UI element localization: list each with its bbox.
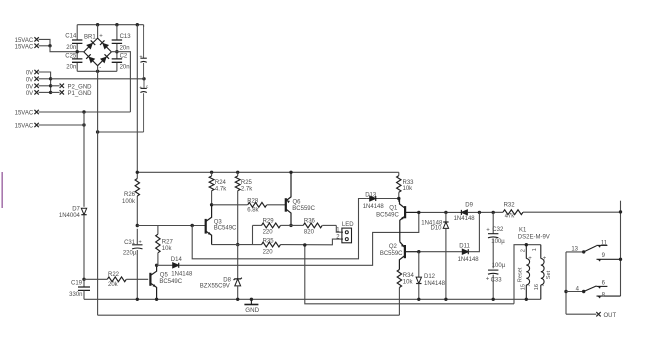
diode D13 1N4148	[367, 198, 399, 200]
wire Q3 emitter row	[212, 244, 253, 246]
svg-text:D10: D10	[430, 226, 442, 232]
svg-text:BZX55C9V: BZX55C9V	[200, 283, 230, 289]
decorative left margin mark (purple)	[1, 172, 3, 208]
capacitor C33 100u (electrolytic)	[488, 269, 498, 271]
wire Q1 base row	[419, 211, 461, 213]
junction C31 bottom rail	[136, 298, 139, 301]
relay contact 8	[598, 296, 601, 299]
capacitor C2	[112, 59, 122, 62]
svg-text:+: +	[139, 239, 142, 245]
capacitor C14	[72, 40, 82, 43]
svg-text:20k: 20k	[108, 282, 119, 288]
junction R35 to rail B	[303, 243, 306, 246]
svg-text:1N4148: 1N4148	[454, 216, 476, 222]
svg-text:D11: D11	[459, 244, 470, 250]
svg-text:D14: D14	[171, 257, 183, 263]
diode D14 1N4148	[158, 264, 173, 266]
svg-text:+: +	[528, 256, 532, 262]
svg-text:BR1: BR1	[84, 35, 96, 41]
svg-text:1N4148: 1N4148	[363, 204, 385, 210]
resistor R29 220	[253, 224, 262, 226]
svg-text:11: 11	[601, 240, 608, 246]
wire rail B (relay drive)	[305, 245, 514, 303]
connector LED	[336, 225, 343, 232]
svg-text:6.8k: 6.8k	[247, 208, 259, 214]
svg-text:20n: 20n	[120, 45, 130, 51]
diode D11 1N4148	[462, 249, 468, 254]
svg-text:R32: R32	[504, 202, 516, 208]
svg-text:BC559C: BC559C	[292, 206, 315, 212]
svg-text:0V: 0V	[26, 77, 33, 83]
svg-text:100k: 100k	[122, 199, 136, 205]
svg-text:C31: C31	[124, 240, 136, 246]
svg-text:R25: R25	[241, 180, 253, 186]
resistor R26 100k	[135, 179, 139, 197]
svg-text:C33: C33	[491, 278, 503, 284]
svg-text:C32: C32	[492, 227, 504, 233]
svg-text:C13: C13	[120, 34, 132, 40]
svg-text:0V: 0V	[26, 91, 33, 97]
resistor R33 10k	[398, 172, 400, 175]
svg-text:1: 1	[532, 248, 538, 251]
resistor R25 2.7k	[237, 172, 239, 176]
wire 0V rail	[51, 78, 144, 80]
svg-text:+: +	[543, 256, 547, 262]
resistor R36 820	[291, 224, 303, 226]
wire C13 column	[116, 25, 118, 40]
svg-text:+: +	[139, 86, 142, 92]
svg-text:15: 15	[521, 284, 527, 290]
wire 15VAC lower 2	[39, 124, 84, 126]
svg-text:Q6: Q6	[293, 200, 302, 206]
svg-text:15VAC: 15VAC	[15, 38, 34, 44]
svg-text:Q3: Q3	[214, 219, 223, 225]
svg-text:C25: C25	[65, 54, 77, 60]
bridge rectifier BR1	[84, 38, 112, 66]
svg-text:C14: C14	[65, 34, 77, 40]
ground GND symbol	[250, 298, 253, 301]
wire rail C (R34 return)	[98, 314, 400, 316]
svg-text:OUT: OUT	[604, 313, 617, 319]
transistor Q3 BC549C	[205, 219, 207, 234]
relay contact pole 4	[565, 252, 567, 314]
svg-text:R34: R34	[403, 273, 415, 279]
svg-text:D7: D7	[72, 207, 80, 213]
svg-text:K1: K1	[519, 227, 527, 233]
wire 15VAC to D7	[83, 112, 85, 207]
resistor R28 6.8k	[212, 204, 248, 206]
svg-text:10k: 10k	[403, 186, 414, 192]
svg-text:47k: 47k	[505, 214, 516, 220]
svg-text:R26: R26	[124, 192, 136, 198]
svg-text:4.7k: 4.7k	[215, 187, 227, 193]
svg-text:220: 220	[263, 249, 274, 255]
zener diode D8 BZX55C9V	[237, 245, 239, 279]
svg-text:P2_GND: P2_GND	[68, 84, 93, 90]
svg-text:R36: R36	[304, 219, 316, 225]
relay contact 9	[598, 259, 601, 262]
wire 15VAC lower 1	[39, 111, 131, 113]
svg-text:LED: LED	[342, 222, 354, 228]
svg-text:D13: D13	[365, 192, 377, 198]
wire 15VAC pair to bridge left	[39, 39, 50, 45]
wire R29 left link	[252, 225, 254, 244]
terminal P2_GND	[51, 85, 60, 87]
svg-text:0V: 0V	[26, 71, 33, 77]
svg-text:220: 220	[263, 229, 274, 235]
relay K1 reset coil	[525, 245, 527, 259]
diode D12 1N4148	[418, 252, 420, 277]
svg-text:Q5: Q5	[160, 273, 169, 279]
resistor R24 4.7k	[211, 172, 213, 176]
svg-text:+: +	[139, 55, 142, 61]
resistor R22 20k	[84, 278, 107, 280]
svg-text:-: -	[528, 283, 530, 289]
svg-text:2.7k: 2.7k	[241, 187, 253, 193]
junction Q5 collector node	[155, 264, 158, 267]
resistor R35 220	[253, 244, 262, 246]
wire 0V bus	[39, 72, 51, 92]
junction Q6 collector to R29 row	[289, 224, 292, 227]
wire D14 to Q1 base (feedback)	[179, 212, 419, 265]
capacitor C32 100u (electrolytic)	[492, 212, 494, 233]
capacitor C19	[83, 279, 85, 287]
diode D7 1N4004	[81, 208, 86, 214]
svg-text:R35: R35	[263, 239, 275, 245]
svg-text:1N4148: 1N4148	[458, 257, 480, 263]
junction R25/Q3 emitter wire	[236, 243, 239, 246]
svg-text:0V: 0V	[26, 84, 33, 90]
wire bridge minus vertical	[97, 71, 99, 315]
svg-text:Set: Set	[546, 270, 552, 279]
transistor Q2 BC559C	[404, 245, 406, 258]
svg-text:15VAC: 15VAC	[15, 110, 34, 116]
wire switch common vertical	[620, 201, 622, 296]
transistor Q1 BC549C	[404, 206, 406, 218]
svg-text:DS2E-M-9V: DS2E-M-9V	[518, 234, 550, 240]
svg-text:BC549C: BC549C	[159, 279, 182, 285]
relay contact pole 13	[566, 251, 584, 253]
wire cap return to 0V vertical	[98, 131, 144, 133]
svg-text:20n: 20n	[66, 65, 76, 71]
svg-text:15VAC: 15VAC	[15, 123, 34, 129]
svg-text:Q2: Q2	[389, 244, 398, 250]
svg-text:2: 2	[521, 249, 527, 252]
capacitor C1 (electrolytic)	[143, 27, 145, 58]
svg-text:10k: 10k	[403, 280, 414, 286]
svg-text:16: 16	[534, 284, 540, 290]
resistor R34 10k	[397, 270, 401, 288]
svg-text:-: -	[542, 283, 544, 289]
relay K1 frame wires	[514, 245, 541, 304]
wire top rail	[77, 24, 143, 26]
svg-text:13: 13	[571, 247, 578, 253]
svg-text:1N4004: 1N4004	[59, 213, 81, 219]
svg-text:BC559C: BC559C	[380, 251, 403, 257]
resistor R32 47k	[503, 210, 523, 215]
capacitor C13	[112, 40, 122, 43]
svg-text:R28: R28	[247, 199, 259, 205]
junction R26 bottom	[136, 224, 139, 227]
wire top rail (regulated)	[137, 171, 399, 173]
svg-text:20n: 20n	[120, 65, 130, 71]
svg-text:R22: R22	[108, 272, 120, 278]
junction R24/R28/Q3 collector	[210, 203, 213, 206]
svg-text:R29: R29	[263, 219, 275, 225]
capacitor C25	[72, 59, 82, 62]
svg-text:+: +	[99, 34, 103, 40]
wire Q3 base to D13	[192, 199, 366, 259]
svg-text:20n: 20n	[66, 45, 76, 51]
wire main positive rail vertical	[136, 25, 138, 179]
svg-text:220µ: 220µ	[123, 251, 137, 257]
svg-text:10k: 10k	[162, 246, 173, 252]
svg-text:+: +	[486, 277, 490, 283]
junction R27/D14/Q5	[157, 264, 158, 266]
wire ground rail A	[84, 298, 541, 300]
svg-text:BC549C: BC549C	[376, 212, 399, 218]
junction Q5 emitter to rail	[155, 298, 158, 301]
svg-text:15VAC: 15VAC	[15, 44, 34, 50]
diode D9 1N4148	[461, 210, 467, 215]
transistor Q5 BC549C	[149, 273, 151, 286]
relay contact 6	[598, 286, 601, 289]
terminal OUT	[566, 313, 596, 315]
svg-text:330n: 330n	[69, 292, 82, 298]
svg-text:R24: R24	[215, 180, 227, 186]
svg-text:GND: GND	[245, 307, 259, 314]
capacitor C21 (electrolytic)	[143, 79, 145, 89]
wire Q2 base row	[419, 251, 462, 253]
resistor R27 10k	[157, 226, 159, 235]
svg-text:1N4148: 1N4148	[171, 272, 193, 278]
svg-text:-: -	[99, 65, 101, 71]
junction D13/R33/Q1	[397, 197, 400, 200]
svg-text:1N4148: 1N4148	[424, 281, 446, 287]
wire C14 column	[76, 25, 78, 40]
svg-text:BC549C: BC549C	[214, 226, 237, 232]
svg-text:D9: D9	[465, 203, 473, 209]
svg-text:Q1: Q1	[389, 205, 398, 211]
relay K1 set coil	[540, 245, 542, 259]
svg-text:Reset: Reset	[518, 267, 524, 282]
wire bridge right to 15VAC	[112, 52, 130, 112]
svg-text:R27: R27	[162, 240, 174, 246]
svg-text:D12: D12	[424, 274, 436, 280]
transistor Q6 BC559C	[285, 198, 287, 212]
wire R26 to Q3 base	[137, 225, 205, 227]
wire D7 to R22 node	[83, 215, 85, 280]
svg-text:820: 820	[304, 229, 315, 235]
terminal P1_GND	[51, 91, 60, 93]
svg-text:+: +	[486, 227, 490, 233]
svg-text:P1_GND: P1_GND	[68, 91, 93, 97]
capacitor C31 220u (electrolytic)	[132, 244, 142, 246]
relay contact 11	[598, 245, 601, 248]
svg-text:C19: C19	[71, 280, 83, 286]
diode D10 1N4148	[445, 212, 447, 222]
svg-text:C2: C2	[120, 54, 128, 60]
svg-text:100µ: 100µ	[492, 263, 506, 269]
wire bridge bottom	[77, 70, 117, 72]
